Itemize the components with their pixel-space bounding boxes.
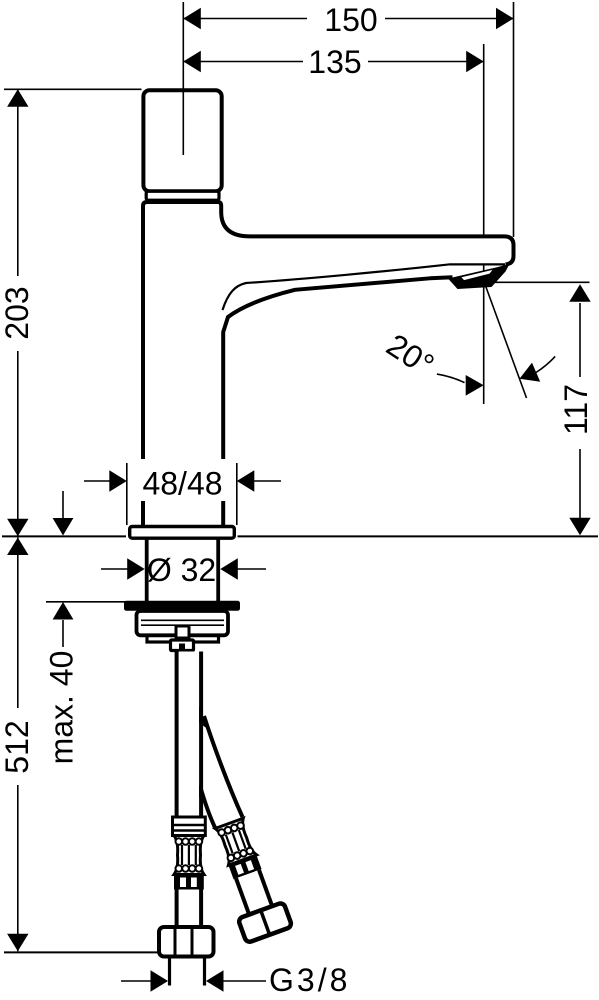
svg-text:135: 135 bbox=[308, 44, 361, 80]
svg-text:512: 512 bbox=[0, 720, 35, 773]
svg-text:48/48: 48/48 bbox=[142, 466, 222, 502]
svg-text:max. 40: max. 40 bbox=[43, 651, 79, 765]
svg-text:150: 150 bbox=[324, 2, 377, 38]
svg-text:20°: 20° bbox=[380, 327, 440, 384]
svg-text:117: 117 bbox=[558, 384, 594, 435]
svg-text:G3/8: G3/8 bbox=[269, 962, 350, 998]
svg-text:203: 203 bbox=[0, 286, 35, 339]
svg-text:Ø 32: Ø 32 bbox=[147, 552, 216, 588]
